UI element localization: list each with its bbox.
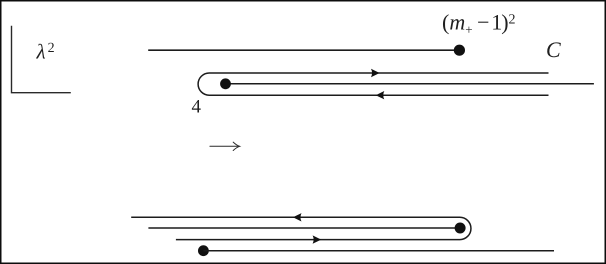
deformed contour hairpin xyxy=(131,217,471,239)
deformed cut line ending at dot xyxy=(148,227,460,229)
contour C hairpin xyxy=(198,73,548,95)
branch point 4 dot xyxy=(220,78,231,89)
arrow left on lower branch xyxy=(376,91,385,99)
left cut line xyxy=(148,49,459,51)
svg-text:λ2: λ2 xyxy=(36,40,55,64)
arrow right on lower branch xyxy=(313,235,322,243)
svg-text:4: 4 xyxy=(192,97,202,118)
branch point (m+-1)^2 dot xyxy=(454,45,465,56)
deformation arrow xyxy=(210,142,240,150)
svg-text:(m+ − 1)2: (m+ − 1)2 xyxy=(442,10,516,38)
lower shifted cut dot xyxy=(198,245,209,256)
right cut line from 4 xyxy=(226,83,594,85)
axis bracket xyxy=(12,26,71,93)
svg-text:C: C xyxy=(546,37,561,62)
arrow right on upper branch xyxy=(371,69,380,77)
dot inside hairpin xyxy=(455,223,466,234)
arrow left on upper branch xyxy=(293,213,302,221)
lower shifted cut line xyxy=(203,250,554,252)
